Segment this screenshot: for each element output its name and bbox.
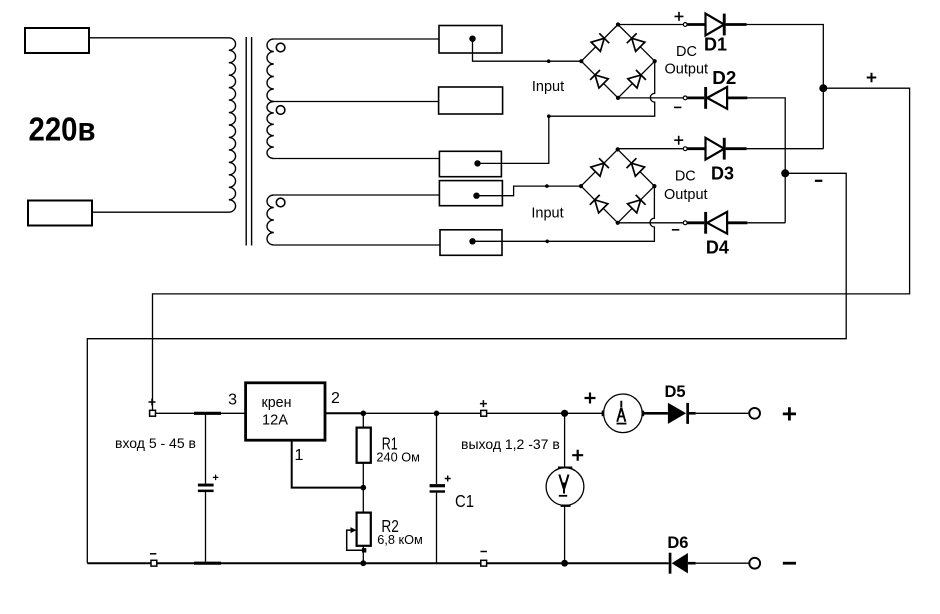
svg-text:выход 1,2 -37 в: выход 1,2 -37 в [461, 436, 560, 452]
svg-text:DC: DC [676, 44, 697, 60]
minus mark [674, 106, 682, 108]
wire D3 to junction [747, 148, 824, 150]
svg-text:C1: C1 [455, 491, 474, 511]
terminal lug left bottom [28, 201, 92, 226]
bottom rail [87, 562, 668, 564]
plus mark [675, 12, 684, 21]
wire AC1 to bridge1 [473, 39, 582, 62]
wire [92, 211, 229, 213]
svg-text:Output: Output [665, 62, 709, 78]
node R2 bottom [360, 560, 366, 566]
diode D6 [669, 553, 672, 574]
node [547, 59, 551, 63]
wire secondary tap 5 [274, 244, 440, 246]
svg-text:Output: Output [664, 187, 708, 203]
node [545, 240, 549, 244]
thick tick top [194, 412, 221, 415]
wire secondary tap 4 [274, 194, 440, 196]
resistor R2 variable [357, 513, 371, 546]
junction minus rail [781, 169, 789, 177]
wire voltmeter to rail [564, 506, 566, 564]
minus mark [672, 229, 680, 231]
wire D4 to junction [747, 222, 785, 224]
wire bridge1 minus output [618, 97, 683, 99]
wire D5 to output [696, 412, 749, 414]
wire to R1 [362, 413, 364, 427]
node voltmeter bottom [561, 560, 568, 567]
connector block 5 [440, 230, 502, 256]
diode D3 [683, 138, 746, 160]
ammeter A1 [602, 411, 604, 417]
bridge rectifier 2 [579, 147, 657, 225]
svg-text:вход 5 - 45 в: вход 5 - 45 в [115, 435, 196, 451]
node C1 [434, 411, 440, 417]
voltmeter V1 [546, 468, 584, 506]
node voltmeter [561, 410, 568, 417]
wire secondary tap 3 [274, 158, 440, 160]
svg-text:крен: крен [262, 395, 292, 411]
plus mark [867, 73, 877, 83]
output minus jack [749, 558, 760, 569]
minus mark [815, 180, 823, 182]
winding start marker 2 [276, 106, 285, 115]
winding start marker 1 [276, 43, 285, 52]
svg-text:1: 1 [295, 447, 304, 464]
winding start marker 3 [276, 198, 285, 207]
plus mark [674, 136, 683, 145]
svg-text:Input: Input [531, 206, 563, 222]
wire D1 to junction [747, 25, 824, 149]
svg-text:D3: D3 [711, 163, 734, 184]
input plus terminal [150, 410, 156, 416]
svg-text:D4: D4 [706, 236, 730, 257]
bridge rectifier 1 [579, 22, 657, 100]
voltmeter branch [564, 413, 566, 467]
wire secondary tap 2 [274, 101, 439, 103]
wire secondary tap 1 [274, 38, 439, 40]
input capacitor [205, 413, 207, 483]
svg-text:Input: Input [532, 79, 564, 95]
wire R2 to rail [362, 546, 364, 563]
transformer secondary winding 2 [267, 195, 274, 245]
svg-text:D6: D6 [667, 534, 688, 552]
svg-text:D2: D2 [712, 67, 736, 88]
svg-text:240 Ом: 240 Ом [376, 450, 420, 465]
output plus jack [749, 408, 760, 419]
wire D2 to junction [747, 98, 785, 223]
svg-text:6,8 кОм: 6,8 кОм [377, 532, 423, 547]
wire minus feed to lower circuit [87, 173, 846, 563]
diode D4 [683, 212, 747, 234]
terminal lug left top [25, 28, 89, 53]
rail to ammeter [363, 412, 602, 414]
svg-text:3: 3 [228, 391, 237, 408]
output plus terminal [481, 410, 487, 416]
R2 bottom pad [362, 548, 366, 552]
wire AC1 to bridge2 [477, 186, 582, 196]
pin2 wire [325, 412, 363, 414]
transformer primary winding [229, 38, 236, 212]
svg-text:DC: DC [675, 169, 696, 185]
node [545, 184, 549, 188]
wire bridge2 minus output [618, 222, 684, 224]
wire bridge1 plus output [618, 24, 683, 26]
top rail [156, 412, 246, 414]
connector block 2 [439, 87, 503, 114]
input minus terminal [151, 560, 157, 566]
svg-text:12А: 12А [262, 413, 288, 429]
node [547, 114, 551, 118]
transformer core [245, 37, 247, 246]
capacitor C1 [436, 413, 438, 484]
transformer secondary winding 1 upper half [267, 39, 274, 102]
svg-text:D5: D5 [664, 383, 685, 401]
output minus terminal [481, 560, 487, 566]
connector block 3 [439, 151, 501, 176]
pin1 wire [292, 440, 364, 487]
wire D6 to output [696, 562, 750, 564]
svg-text:D1: D1 [704, 33, 727, 54]
transformer secondary winding 1 lower half [267, 102, 274, 159]
svg-text:220в: 220в [29, 111, 96, 148]
wire R1 to R2 [362, 463, 364, 513]
diode D1 [683, 14, 746, 36]
diode D2 [683, 87, 747, 109]
node pin1 [361, 485, 367, 491]
connector block 4 [439, 181, 502, 206]
wire AC2 to bridge1 with hop [478, 61, 655, 163]
R2 wiper arrow [347, 530, 364, 550]
regulator KREN box [246, 383, 325, 440]
svg-text:2: 2 [331, 390, 340, 407]
diode D5 [643, 412, 668, 415]
junction plus rail [819, 84, 827, 92]
wire plus feed to lower circuit [153, 88, 910, 410]
wire bridge2 plus output [618, 148, 684, 150]
node R1 [361, 411, 367, 417]
connector block 1 [439, 26, 502, 54]
resistor R1 [357, 428, 371, 463]
wire AC2 to bridge2 with hop [473, 186, 655, 241]
thick tick bottom [194, 562, 221, 565]
wire [89, 37, 229, 39]
